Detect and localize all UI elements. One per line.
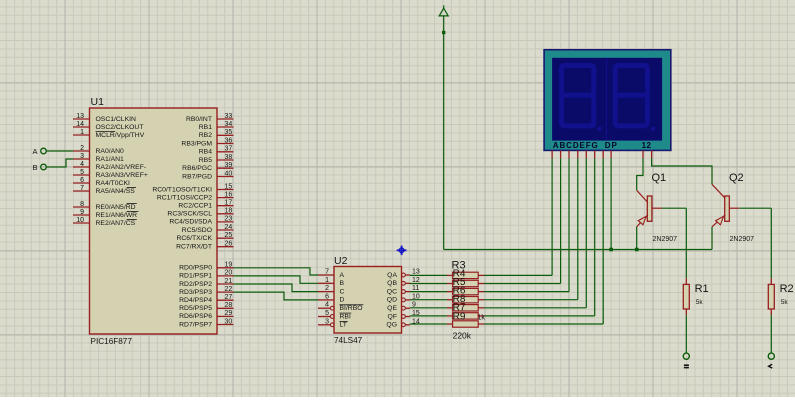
- svg-text:RC0/T1OSO/T1CKI: RC0/T1OSO/T1CKI: [152, 186, 212, 193]
- svg-text:RC2/CCP1: RC2/CCP1: [178, 203, 212, 210]
- svg-text:19: 19: [225, 262, 233, 269]
- svg-text:12: 12: [412, 277, 420, 284]
- svg-text:LT: LT: [340, 322, 347, 329]
- svg-text:DP: DP: [605, 141, 618, 150]
- svg-text:RB7/PGD: RB7/PGD: [182, 173, 212, 180]
- svg-text:20: 20: [225, 270, 233, 277]
- svg-text:8: 8: [80, 201, 84, 208]
- svg-text:12: 12: [642, 141, 652, 150]
- svg-text:29: 29: [225, 310, 233, 317]
- svg-text:2N2907: 2N2907: [653, 236, 678, 243]
- svg-text:Q2: Q2: [729, 172, 744, 184]
- svg-text:15: 15: [225, 183, 233, 190]
- svg-text:MCLR/Vpp/THV: MCLR/Vpp/THV: [96, 132, 145, 139]
- svg-text:13: 13: [76, 113, 84, 120]
- svg-text:RB2: RB2: [199, 132, 212, 139]
- svg-text:37: 37: [225, 146, 233, 153]
- svg-text:30: 30: [225, 318, 233, 325]
- svg-text:4: 4: [325, 302, 329, 309]
- svg-text:1: 1: [80, 129, 84, 136]
- svg-text:RA5/AN4/SS: RA5/AN4/SS: [96, 188, 136, 195]
- svg-text:OSC2/CLKOUT: OSC2/CLKOUT: [96, 124, 144, 131]
- svg-text:RC4/SDI/SDA: RC4/SDI/SDA: [169, 219, 212, 226]
- svg-text:B: B: [32, 163, 37, 172]
- svg-text:RE1/AN6/WR: RE1/AN6/WR: [96, 212, 138, 219]
- svg-text:25: 25: [225, 232, 233, 239]
- svg-text:RB0/INT: RB0/INT: [186, 116, 212, 123]
- svg-text:BI/RBO: BI/RBO: [340, 305, 363, 312]
- svg-text:35: 35: [225, 129, 233, 136]
- svg-text:QC: QC: [387, 288, 397, 295]
- svg-text:14: 14: [76, 121, 84, 128]
- svg-text:5: 5: [80, 169, 84, 176]
- svg-text:QD: QD: [387, 297, 397, 304]
- svg-text:9: 9: [80, 209, 84, 216]
- svg-text:RA3/AN3/VREF+: RA3/AN3/VREF+: [96, 172, 148, 179]
- svg-text:39: 39: [225, 162, 233, 169]
- svg-text:OSC1/CLKIN: OSC1/CLKIN: [96, 116, 137, 123]
- svg-text:24: 24: [225, 224, 233, 231]
- svg-text:74LS47: 74LS47: [334, 336, 363, 345]
- svg-text:R2: R2: [780, 283, 794, 295]
- svg-text:B: B: [340, 280, 345, 287]
- svg-text:A: A: [32, 147, 37, 156]
- svg-text:R1: R1: [695, 283, 709, 295]
- svg-text:RB6/PGC: RB6/PGC: [182, 165, 212, 172]
- svg-text:RB3/PGM: RB3/PGM: [181, 140, 212, 147]
- svg-text:RD6/PSP6: RD6/PSP6: [179, 313, 212, 320]
- svg-text:33: 33: [225, 113, 233, 120]
- svg-text:QA: QA: [387, 272, 397, 279]
- svg-text:26: 26: [225, 241, 233, 248]
- svg-text:28: 28: [225, 302, 233, 309]
- svg-text:D: D: [340, 297, 345, 304]
- svg-text:23: 23: [225, 216, 233, 223]
- svg-text:RC3/SCK/SCL: RC3/SCK/SCL: [167, 211, 212, 218]
- svg-text:RD7/PSP7: RD7/PSP7: [179, 321, 212, 328]
- svg-text:36: 36: [225, 137, 233, 144]
- svg-text:1: 1: [325, 277, 329, 284]
- svg-text:RC5/SDO: RC5/SDO: [182, 227, 212, 234]
- svg-text:QF: QF: [388, 313, 397, 320]
- svg-text:5k: 5k: [781, 299, 789, 306]
- svg-text:QE: QE: [387, 305, 397, 312]
- svg-text:21: 21: [225, 278, 233, 285]
- svg-text:RE0/AN5/RD: RE0/AN5/RD: [96, 204, 136, 211]
- svg-text:18: 18: [225, 208, 233, 215]
- svg-text:4: 4: [80, 161, 84, 168]
- svg-text:PIC16F877: PIC16F877: [91, 337, 133, 346]
- svg-text:2: 2: [325, 285, 329, 292]
- svg-text:10: 10: [76, 217, 84, 224]
- svg-text:RE2/AN7/CS: RE2/AN7/CS: [96, 220, 136, 227]
- svg-text:RA4/T0CKI: RA4/T0CKI: [96, 180, 130, 187]
- svg-text:RD1/PSP1: RD1/PSP1: [179, 273, 212, 280]
- svg-text:27: 27: [225, 294, 233, 301]
- svg-text:RA2/AN2/VREF-: RA2/AN2/VREF-: [96, 164, 147, 171]
- svg-text:220k: 220k: [453, 331, 472, 341]
- svg-text:RA0/AN0: RA0/AN0: [96, 148, 125, 155]
- svg-text:RBI: RBI: [340, 313, 351, 320]
- svg-text:5k: 5k: [696, 299, 704, 306]
- svg-text:RD4/PSP4: RD4/PSP4: [179, 297, 212, 304]
- svg-text:16: 16: [225, 191, 233, 198]
- svg-text:2: 2: [80, 145, 84, 152]
- svg-text:R9: R9: [453, 311, 466, 322]
- svg-text:RC6/TX/CK: RC6/TX/CK: [176, 235, 212, 242]
- svg-text:RA1/AN1: RA1/AN1: [96, 156, 125, 163]
- svg-text:RD2/PSP2: RD2/PSP2: [179, 281, 212, 288]
- svg-text:U2: U2: [334, 255, 348, 267]
- svg-text:7: 7: [325, 269, 329, 276]
- svg-text:17: 17: [225, 200, 233, 207]
- svg-text:38: 38: [225, 154, 233, 161]
- svg-text:QB: QB: [387, 280, 397, 287]
- svg-text:2N2907: 2N2907: [730, 236, 755, 243]
- svg-text:13: 13: [412, 269, 420, 276]
- svg-text:RB4: RB4: [199, 149, 212, 156]
- svg-text:A: A: [340, 272, 345, 279]
- svg-text:RD0/PSP0: RD0/PSP0: [179, 265, 212, 272]
- svg-text:6: 6: [80, 177, 84, 184]
- svg-text:7: 7: [80, 185, 84, 192]
- svg-text:RD5/PSP5: RD5/PSP5: [179, 305, 212, 312]
- svg-text:40: 40: [225, 170, 233, 177]
- svg-text:RD3/PSP3: RD3/PSP3: [179, 289, 212, 296]
- svg-text:6: 6: [325, 293, 329, 300]
- svg-text:ABCDEFG: ABCDEFG: [553, 141, 599, 150]
- svg-text:22: 22: [225, 286, 233, 293]
- svg-text:QG: QG: [386, 322, 397, 329]
- svg-text:RC7/RX/DT: RC7/RX/DT: [176, 244, 212, 251]
- svg-text:RB5: RB5: [199, 157, 212, 164]
- svg-text:1k: 1k: [478, 315, 486, 322]
- svg-text:3: 3: [80, 153, 84, 160]
- svg-text:34: 34: [225, 121, 233, 128]
- svg-text:RB1: RB1: [199, 124, 212, 131]
- svg-text:Q1: Q1: [652, 172, 667, 184]
- svg-text:RC1/T1OSI/CCP2: RC1/T1OSI/CCP2: [157, 194, 212, 201]
- svg-text:5: 5: [325, 310, 329, 317]
- svg-text:U1: U1: [91, 96, 105, 108]
- svg-text:C: C: [340, 288, 345, 295]
- svg-text:3: 3: [325, 318, 329, 325]
